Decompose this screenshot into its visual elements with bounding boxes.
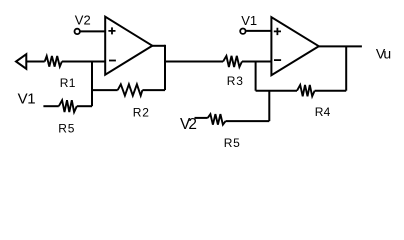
svg-text:R5: R5 xyxy=(224,136,241,150)
svg-text:R2: R2 xyxy=(133,105,150,119)
svg-text:V1: V1 xyxy=(18,91,36,108)
svg-text:V2: V2 xyxy=(180,116,196,133)
svg-text:V2: V2 xyxy=(75,13,91,28)
svg-text:R4: R4 xyxy=(315,105,331,119)
svg-text:R3: R3 xyxy=(227,74,244,88)
svg-text:Vu: Vu xyxy=(376,46,391,62)
svg-text:R5: R5 xyxy=(58,121,75,135)
svg-text:V1: V1 xyxy=(241,13,257,28)
svg-text:R1: R1 xyxy=(60,76,76,90)
